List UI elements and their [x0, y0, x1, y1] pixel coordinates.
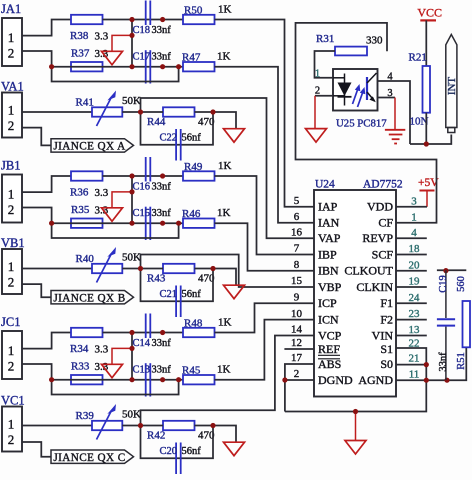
junction — [129, 346, 134, 351]
junction — [160, 221, 165, 226]
svg-text:VA1: VA1 — [1, 80, 24, 94]
wire — [296, 23, 437, 223]
wire — [396, 254, 427, 256]
svg-text:JIANCE QX A: JIANCE QX A — [53, 141, 125, 153]
wire — [141, 426, 214, 459]
svg-text:33nf: 33nf — [152, 52, 172, 63]
capacitor C14 33nf — [145, 314, 147, 339]
wire — [22, 208, 52, 224]
junction — [210, 423, 215, 428]
junction — [176, 221, 181, 226]
wire — [52, 222, 183, 224]
svg-text:AD7752: AD7752 — [363, 179, 403, 191]
svg-text:15: 15 — [291, 275, 303, 287]
wire — [141, 112, 214, 145]
junction — [129, 377, 134, 382]
wire — [22, 176, 71, 192]
svg-text:C16: C16 — [133, 182, 151, 193]
wire — [22, 333, 71, 349]
svg-text:C17: C17 — [133, 52, 151, 63]
svg-text:56nf: 56nf — [182, 289, 202, 300]
svg-text:3.3: 3.3 — [95, 187, 109, 199]
connector JA1 — [2, 18, 22, 66]
junction — [138, 109, 143, 114]
junction — [176, 64, 181, 69]
wire — [22, 111, 92, 113]
resistor R37 3.3 — [71, 62, 103, 71]
svg-text:33nf: 33nf — [152, 365, 172, 376]
resistor R42 470 — [163, 421, 195, 430]
junction — [176, 377, 181, 382]
resistor R51 560 — [463, 301, 471, 347]
ground — [224, 285, 245, 299]
resistor R35 3.3 — [71, 219, 103, 228]
junction — [49, 64, 54, 69]
svg-text:VCP: VCP — [318, 328, 342, 342]
svg-text:CLKIN: CLKIN — [356, 280, 393, 294]
svg-text:9: 9 — [294, 292, 300, 304]
junction — [424, 141, 429, 146]
resistor R33 3.3 — [71, 375, 103, 384]
svg-text:R48: R48 — [184, 318, 203, 330]
svg-text:3: 3 — [411, 195, 417, 207]
ground — [224, 442, 245, 456]
resistor R44 470 — [163, 107, 195, 116]
wire — [378, 97, 396, 99]
svg-text:R37: R37 — [71, 48, 90, 60]
svg-text:24: 24 — [409, 292, 421, 304]
wire — [52, 223, 179, 238]
svg-text:1K: 1K — [218, 160, 232, 172]
wire — [22, 442, 51, 457]
wire — [396, 319, 427, 321]
wire — [141, 98, 315, 238]
svg-text:R21: R21 — [409, 52, 427, 64]
wire — [215, 223, 315, 271]
junction — [129, 330, 134, 335]
svg-text:C21: C21 — [160, 289, 178, 300]
svg-text:1K: 1K — [217, 51, 231, 63]
svg-text:56nf: 56nf — [182, 446, 202, 457]
svg-text:F1: F1 — [380, 296, 393, 310]
svg-text:56nf: 56nf — [182, 133, 202, 144]
svg-text:AGND: AGND — [358, 373, 393, 387]
svg-text:IBN: IBN — [318, 264, 339, 278]
wire — [285, 364, 314, 412]
junction — [129, 173, 134, 178]
svg-text:C15: C15 — [133, 208, 151, 219]
svg-text:IAP: IAP — [318, 200, 338, 214]
svg-text:JIANCE QX B: JIANCE QX B — [53, 292, 125, 304]
svg-text:R47: R47 — [182, 52, 201, 64]
svg-text:VDD: VDD — [367, 200, 393, 214]
connector INT — [446, 35, 457, 128]
wire — [103, 175, 184, 177]
svg-text:2: 2 — [315, 86, 320, 97]
junction — [353, 409, 358, 414]
svg-text:11: 11 — [409, 369, 420, 381]
wire — [22, 51, 52, 67]
svg-text:R45: R45 — [182, 365, 201, 377]
svg-text:R50: R50 — [184, 5, 203, 17]
svg-text:R31: R31 — [316, 33, 334, 45]
svg-text:CF: CF — [378, 216, 393, 230]
capacitor C13 33nf — [145, 363, 147, 396]
svg-text:JA1: JA1 — [1, 2, 21, 16]
svg-text:33nf: 33nf — [438, 352, 449, 372]
wire — [215, 320, 315, 380]
svg-text:JB1: JB1 — [1, 159, 20, 173]
junction — [282, 377, 287, 382]
op-amp U24 AD7752 — [314, 190, 396, 397]
resistor R49 1K — [183, 171, 215, 180]
capacitor C15 33nf — [145, 207, 147, 240]
svg-text:VB1: VB1 — [1, 236, 25, 250]
wire — [315, 95, 333, 97]
svg-text:2: 2 — [8, 118, 15, 133]
svg-text:CLKOUT: CLKOUT — [344, 264, 393, 278]
wire — [103, 19, 184, 21]
svg-text:C22: C22 — [160, 133, 178, 144]
svg-text:JIANCE QX C: JIANCE QX C — [53, 452, 125, 464]
svg-text:23: 23 — [409, 308, 421, 320]
node JIANCE QX B — [51, 291, 134, 304]
svg-text:33nf: 33nf — [152, 182, 172, 193]
wire — [131, 20, 133, 67]
connector VB1 — [2, 249, 22, 294]
svg-text:C18: C18 — [133, 25, 151, 36]
svg-text:1: 1 — [8, 343, 15, 358]
wire — [215, 176, 315, 255]
wire — [22, 425, 92, 427]
svg-text:U24: U24 — [315, 179, 335, 191]
svg-text:R36: R36 — [70, 187, 89, 199]
svg-text:1: 1 — [8, 417, 15, 432]
svg-text:C19: C19 — [438, 275, 449, 293]
wire — [378, 81, 411, 144]
wire — [141, 268, 164, 270]
wire — [215, 20, 315, 207]
svg-text:1: 1 — [411, 211, 417, 223]
capacitor C19 33nf — [445, 270, 447, 318]
svg-text:SCF: SCF — [372, 247, 394, 261]
ground — [102, 208, 123, 222]
svg-text:13: 13 — [409, 324, 421, 336]
svg-text:21: 21 — [409, 353, 420, 365]
svg-text:560: 560 — [456, 276, 467, 292]
wire — [396, 302, 427, 304]
wire — [396, 270, 427, 272]
junction — [444, 378, 449, 383]
svg-text:U25 PC817: U25 PC817 — [336, 117, 387, 129]
optocoupler U25 PC817 — [333, 69, 378, 111]
ground — [345, 441, 366, 455]
junction — [424, 362, 429, 367]
connector JB1 — [2, 175, 22, 223]
svg-text:7: 7 — [294, 243, 300, 255]
resistor R43 470 — [163, 264, 195, 273]
svg-text:19: 19 — [409, 276, 421, 288]
connector VC1 — [2, 407, 22, 452]
wire — [141, 269, 214, 302]
svg-text:R38: R38 — [70, 30, 89, 42]
wire — [22, 268, 92, 270]
svg-text:R42: R42 — [147, 430, 165, 442]
svg-text:R44: R44 — [147, 116, 166, 128]
svg-text:VCC: VCC — [417, 6, 442, 20]
wire — [315, 51, 336, 78]
junction — [160, 17, 165, 22]
wire — [112, 348, 132, 364]
svg-text:2: 2 — [294, 368, 300, 380]
svg-text:VIN: VIN — [372, 328, 394, 342]
junction — [443, 268, 448, 273]
wire — [122, 111, 140, 113]
svg-text:3.3: 3.3 — [95, 31, 109, 43]
wire — [131, 333, 133, 380]
wire — [314, 96, 316, 129]
wire — [215, 67, 315, 223]
resistor R38 3.3 — [71, 15, 103, 24]
wire — [425, 113, 427, 144]
svg-text:F2: F2 — [380, 312, 393, 326]
svg-text:IBP: IBP — [318, 247, 337, 261]
svg-text:ICP: ICP — [318, 296, 337, 310]
resistor R34 3.3 — [71, 328, 103, 337]
junction — [160, 377, 165, 382]
svg-text:R34: R34 — [70, 343, 89, 355]
svg-text:VBP: VBP — [318, 280, 342, 294]
svg-text:5: 5 — [294, 195, 300, 207]
wire — [396, 335, 427, 337]
wire — [141, 255, 315, 288]
svg-text:2: 2 — [8, 202, 15, 217]
wire — [355, 412, 357, 441]
wire — [410, 135, 451, 145]
junction — [129, 221, 134, 226]
svg-text:VC1: VC1 — [1, 394, 25, 408]
svg-text:JC1: JC1 — [1, 315, 20, 329]
svg-text:R46: R46 — [182, 208, 201, 220]
svg-text:R41: R41 — [76, 97, 94, 109]
node JIANCE QX A — [51, 139, 134, 152]
resistor R48 1K — [183, 328, 215, 337]
wire — [215, 303, 315, 332]
ground — [306, 129, 327, 143]
wire — [52, 66, 183, 68]
ground — [385, 129, 405, 131]
svg-text:50K: 50K — [122, 95, 141, 107]
wire — [396, 237, 427, 239]
wire — [141, 336, 315, 426]
svg-text:R33: R33 — [71, 361, 90, 373]
connector JC1 — [2, 331, 22, 379]
svg-text:1: 1 — [8, 259, 15, 274]
capacitor C20 56nf — [175, 443, 177, 475]
wire — [122, 268, 140, 270]
svg-text:50K: 50K — [122, 252, 141, 264]
ground — [224, 129, 245, 143]
svg-text:8: 8 — [294, 259, 300, 271]
junction — [138, 423, 143, 428]
ground — [102, 364, 123, 378]
junction — [129, 33, 134, 38]
svg-text:2: 2 — [8, 359, 15, 374]
junction — [210, 266, 215, 271]
svg-text:1K: 1K — [217, 207, 231, 219]
junction — [129, 189, 134, 194]
wire — [22, 284, 51, 297]
svg-text:ICN: ICN — [318, 312, 339, 326]
svg-text:VAP: VAP — [318, 231, 341, 245]
svg-text:3.3: 3.3 — [95, 344, 109, 356]
svg-text:50K: 50K — [122, 409, 141, 421]
wire — [396, 364, 426, 366]
wire — [52, 379, 183, 381]
junction — [49, 377, 54, 382]
svg-text:INT: INT — [446, 77, 458, 96]
junction — [210, 109, 215, 114]
wire — [22, 364, 52, 380]
svg-text:17: 17 — [291, 352, 303, 364]
wire — [22, 128, 51, 146]
wire — [284, 348, 314, 350]
wire — [22, 20, 71, 36]
wire — [425, 20, 427, 66]
junction — [160, 64, 165, 69]
wire — [52, 380, 179, 395]
svg-text:R40: R40 — [76, 253, 95, 265]
svg-text:R49: R49 — [184, 161, 203, 173]
wire — [213, 112, 236, 129]
svg-text:14: 14 — [291, 324, 303, 336]
resistor R50 1K — [183, 15, 215, 24]
svg-text:12: 12 — [291, 337, 302, 349]
connector VA1 — [2, 93, 22, 138]
wire — [213, 269, 236, 286]
wire — [396, 206, 427, 208]
svg-text:S0: S0 — [380, 357, 393, 371]
svg-text:33nf: 33nf — [152, 338, 172, 349]
wire — [103, 332, 184, 334]
resistor R45 1K — [183, 375, 215, 384]
svg-text:6: 6 — [294, 211, 300, 223]
wire — [285, 379, 314, 381]
svg-text:C13: C13 — [133, 365, 151, 376]
wire — [141, 111, 164, 113]
wire — [396, 347, 466, 380]
junction — [49, 221, 54, 226]
svg-text:1: 1 — [8, 103, 15, 118]
resistor R36 3.3 — [71, 171, 103, 180]
svg-text:REVP: REVP — [362, 231, 393, 245]
potentiometer R41 50K — [92, 107, 122, 116]
capacitor C21 56nf — [175, 286, 177, 318]
svg-text:DGND: DGND — [318, 373, 353, 387]
svg-text:1K: 1K — [218, 4, 232, 16]
svg-text:18: 18 — [409, 243, 421, 255]
junction — [129, 64, 134, 69]
ground — [102, 51, 123, 65]
capacitor C18 33nf — [145, 1, 147, 26]
wire — [213, 426, 236, 443]
svg-text:20: 20 — [409, 259, 421, 271]
svg-text:IAN: IAN — [318, 216, 340, 230]
wire — [112, 35, 132, 51]
junction — [160, 330, 165, 335]
svg-text:S1: S1 — [380, 342, 393, 356]
wire — [122, 425, 140, 427]
svg-text:1K: 1K — [217, 364, 231, 376]
svg-text:C20: C20 — [160, 446, 178, 457]
svg-text:2: 2 — [8, 432, 15, 447]
junction — [129, 17, 134, 22]
junction — [160, 173, 165, 178]
svg-text:1: 1 — [8, 30, 15, 45]
svg-text:10: 10 — [291, 308, 303, 320]
svg-text:33nf: 33nf — [152, 208, 172, 219]
svg-text:2: 2 — [8, 275, 15, 290]
capacitor C22 56nf — [175, 129, 177, 161]
svg-text:16: 16 — [291, 227, 303, 239]
svg-text:1: 1 — [315, 69, 320, 80]
potentiometer R40 50K — [92, 264, 122, 273]
wire — [437, 269, 466, 271]
svg-text:330: 330 — [366, 34, 383, 46]
wire — [131, 176, 133, 223]
wire — [52, 67, 179, 82]
capacitor C16 33nf — [145, 157, 147, 182]
wire — [112, 192, 132, 208]
capacitor C17 33nf — [145, 50, 147, 83]
svg-text:R51: R51 — [456, 352, 467, 370]
junction — [138, 266, 143, 271]
resistor R31 330 — [335, 47, 367, 56]
node JIANCE QX C — [51, 450, 134, 463]
svg-text:4: 4 — [411, 227, 417, 239]
wire — [396, 286, 427, 288]
junction — [424, 378, 429, 383]
resistor R47 1K — [183, 62, 215, 71]
wire — [394, 98, 396, 130]
svg-text:33nf: 33nf — [152, 25, 172, 36]
svg-text:1: 1 — [8, 187, 15, 202]
resistor R21 10N — [423, 66, 431, 113]
svg-text:1K: 1K — [218, 317, 232, 329]
svg-text:2: 2 — [8, 46, 15, 61]
wire — [285, 348, 426, 412]
wire — [141, 425, 164, 427]
svg-text:C14: C14 — [133, 338, 151, 349]
svg-text:R43: R43 — [147, 273, 166, 285]
svg-text:R35: R35 — [71, 204, 90, 216]
svg-text:REF: REF — [318, 342, 340, 356]
potentiometer R39 50K — [92, 421, 122, 430]
svg-text:R39: R39 — [76, 410, 95, 422]
resistor R46 1K — [183, 219, 215, 228]
